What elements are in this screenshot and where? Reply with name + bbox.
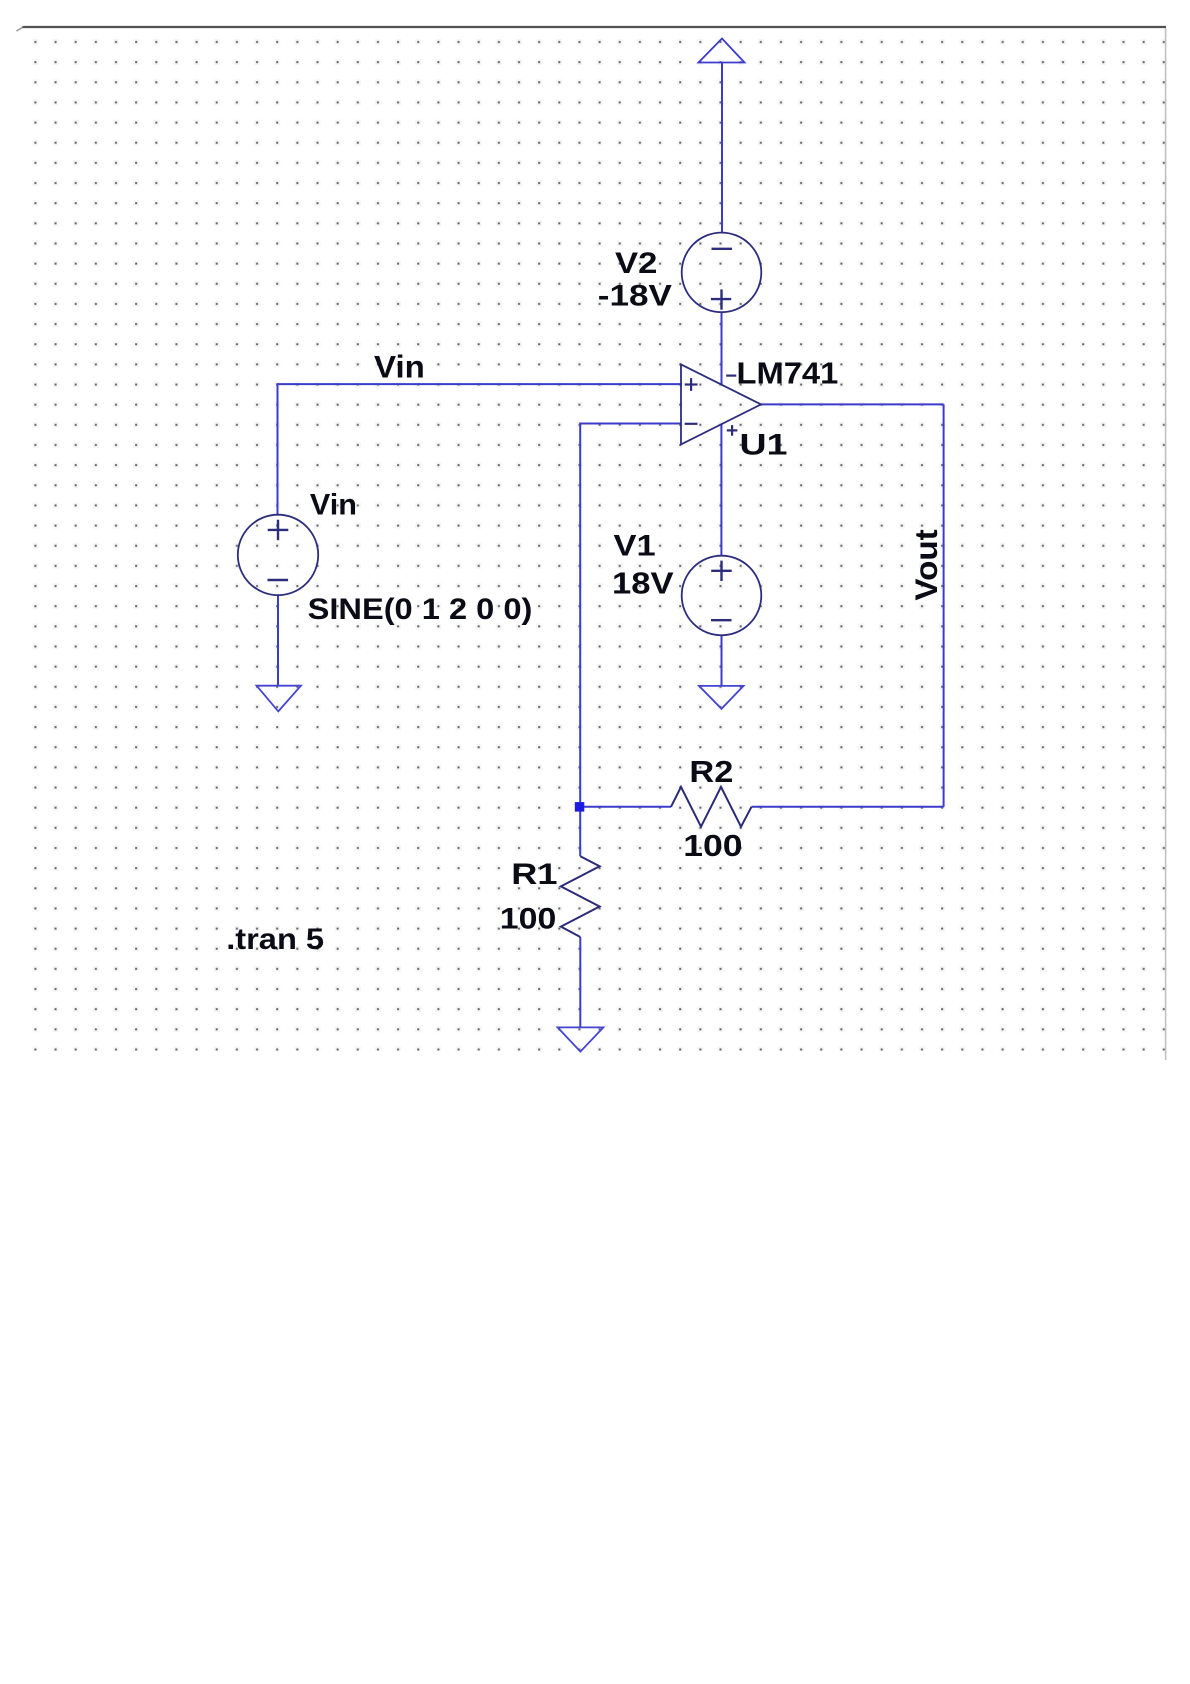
svg-text:Vin: Vin (310, 489, 357, 522)
svg-text:.tran 5: .tran 5 (226, 922, 324, 956)
svg-text:Vin: Vin (374, 349, 425, 384)
svg-text:LM741: LM741 (737, 355, 839, 390)
svg-text:U1: U1 (740, 428, 788, 462)
svg-text:-18V: -18V (598, 278, 672, 312)
svg-text:SINE(0 1 2 0 0): SINE(0 1 2 0 0) (308, 592, 533, 626)
svg-text:R1: R1 (511, 858, 557, 891)
svg-text:100: 100 (500, 901, 557, 935)
svg-text:Vout: Vout (909, 529, 944, 601)
svg-text:R2: R2 (689, 753, 733, 788)
svg-text:100: 100 (683, 829, 742, 863)
svg-text:18V: 18V (612, 565, 674, 600)
svg-text:V2: V2 (615, 246, 657, 279)
svg-text:V1: V1 (614, 528, 656, 561)
